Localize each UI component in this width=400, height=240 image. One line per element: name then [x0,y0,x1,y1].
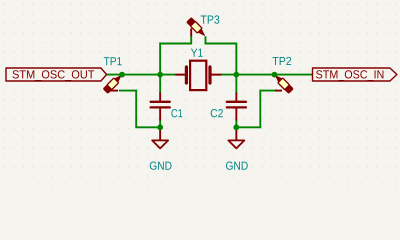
label C1 [171,109,182,117]
crystal Y1 pin left [176,74,185,76]
test point TP3 pin [190,29,192,37]
capacitor C2 bottom plate [227,106,246,108]
wire: main horizontal left (label to crystal pin) [107,74,176,76]
test point TP2 pin [275,90,282,92]
crystal Y1 left plate [185,67,188,83]
label TP1 [104,57,122,65]
junction TP1 [119,72,125,78]
wire: top loop right [206,36,237,74]
test point TP3 probe [186,17,208,39]
global label STM_OSC_IN outline [313,68,397,81]
junction TP2 [272,72,278,78]
crystal Y1 right plate [208,67,211,83]
junction gnd right [233,124,239,130]
test point TP1 probe [103,72,125,94]
wire: C1 top branch [159,75,161,94]
test point TP2 probe [272,72,294,94]
wire: C2 top branch [235,75,237,94]
label TP2 [273,57,292,65]
capacitor C2 top plate [227,101,246,103]
label C2 [211,109,223,117]
label Y1 [191,49,203,57]
ground symbol left [152,127,168,148]
wire: TP2 ground lead [236,91,277,128]
capacitor C2 pin bottom [235,107,237,120]
capacitor C1 pin top [159,93,161,102]
wire: top loop left [160,36,191,74]
capacitor C1 pin bottom [159,107,161,120]
global label STM_OSC_IN text [316,70,383,81]
wire: C2 bottom to gnd junction [235,120,237,128]
crystal Y1 pin right [211,74,221,76]
label GND right [226,162,248,170]
wire: main horizontal right (crystal pin to label) [222,74,313,76]
junction right crystal node [233,72,239,78]
label GND left [150,162,172,170]
global label STM_OSC_OUT text [13,70,95,81]
wire: C1 bottom to gnd junction [159,120,161,128]
crystal Y1 body [190,61,206,90]
global label STM_OSC_OUT outline [6,68,107,81]
label TP3 [201,15,220,23]
ground symbol right [228,127,244,148]
capacitor C1 top plate [151,101,170,103]
capacitor C2 pin top [235,93,237,102]
wire: TP1 ground lead [119,91,160,128]
junction left crystal node [157,72,163,78]
capacitor C1 bottom plate [151,106,170,108]
junction gnd left [157,124,163,130]
test point TP1 pin [111,90,119,92]
